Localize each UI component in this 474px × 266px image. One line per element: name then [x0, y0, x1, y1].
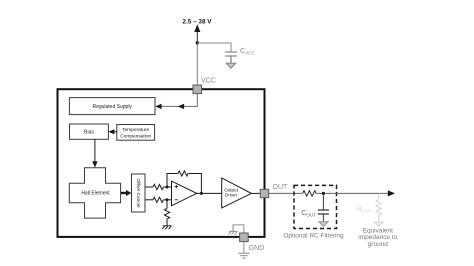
capacitor COUT [318, 193, 329, 222]
ground chassis symbol at resistor [162, 226, 171, 229]
svg-text:Regulated Supply: Regulated Supply [92, 104, 132, 110]
wire resistor to op-amp - input [163, 199, 171, 201]
ground arrow below CVCC [226, 63, 235, 68]
svg-text:GND: GND [249, 245, 265, 252]
wire temperature compensation to bias [110, 131, 117, 133]
wire offset cancel to amp bottom input [145, 199, 153, 201]
op-amp [172, 181, 197, 206]
block Regulated Supply [69, 98, 155, 115]
block Offset Cancel [132, 174, 146, 212]
node top input junction [166, 186, 169, 189]
svg-text:Optional RC Filtering: Optional RC Filtering [283, 232, 344, 239]
wire to capacitor CVCC [197, 43, 231, 52]
node filter junction [322, 192, 325, 195]
arrowhead up at supply [194, 24, 200, 32]
wire filter resistor to output arrow [316, 192, 390, 194]
resistor op-amp minus to ground [164, 200, 169, 226]
svg-text:ground: ground [368, 241, 389, 248]
wire supply to junction [196, 27, 198, 43]
wire offset cancel to amp top input [145, 186, 153, 188]
wire VCC pin to regulated supply [156, 94, 197, 107]
svg-text:Bias: Bias [84, 129, 94, 135]
dashed box optional RC filter [294, 185, 337, 228]
capacitor CVCC [225, 52, 237, 63]
svg-text:2.5 – 38 V: 2.5 – 38 V [182, 18, 212, 25]
arrowhead mid-wire [178, 104, 184, 109]
equivalent impedance resistor ROUT (faint) [376, 193, 381, 221]
block Temperature Compensation [117, 125, 155, 141]
caption equivalent impedance to ground [358, 227, 397, 247]
output driver [222, 178, 252, 208]
arrowhead output right [388, 190, 395, 196]
svg-text:Compensation: Compensation [120, 133, 151, 139]
pin VCC [193, 85, 202, 94]
wire OUT pin to filter resistor [269, 192, 303, 194]
feedback resistor [178, 171, 188, 176]
resistor RC filter [303, 191, 317, 197]
pin OUT [260, 189, 268, 197]
arrowhead into hall element [92, 161, 97, 167]
svg-text:Offset Cancel: Offset Cancel [135, 179, 141, 208]
node op-amp output junction [200, 192, 203, 195]
node junction on VCC line [196, 41, 199, 44]
wire op-amp to output driver [197, 192, 222, 194]
resistor bottom input [153, 197, 163, 202]
svg-text:OUT: OUT [273, 184, 289, 191]
wire resistor to op-amp + input [163, 186, 171, 188]
ground chassis symbol internal [228, 231, 237, 234]
ground earth symbol below ROUT (faint) [374, 222, 383, 226]
svg-text:VCC: VCC [201, 78, 216, 85]
ground earth symbol below GND pin [238, 253, 250, 258]
node bottom input junction [166, 198, 169, 201]
block Bias [70, 124, 109, 139]
wire bias to hall element [94, 139, 96, 162]
svg-text:Driver: Driver [225, 193, 238, 198]
arrowhead into bias [108, 129, 114, 134]
svg-text:Hall Element: Hall Element [81, 190, 110, 196]
svg-text:Temperature: Temperature [122, 127, 149, 133]
wire GND pin internal [233, 225, 244, 233]
wire output driver to OUT pin [251, 192, 261, 194]
chip outline [58, 89, 265, 237]
wire GND pin to ground [243, 242, 245, 253]
wire junction to VCC pin [196, 43, 198, 86]
thick arrow hall to offset cancel [121, 190, 131, 196]
ground arrow below COUT [319, 222, 328, 227]
arrowhead into regulated supply [155, 104, 161, 109]
resistor top input [153, 184, 163, 189]
hall element [69, 168, 120, 218]
feedback loop wire [167, 174, 201, 194]
pin GND [240, 233, 249, 242]
